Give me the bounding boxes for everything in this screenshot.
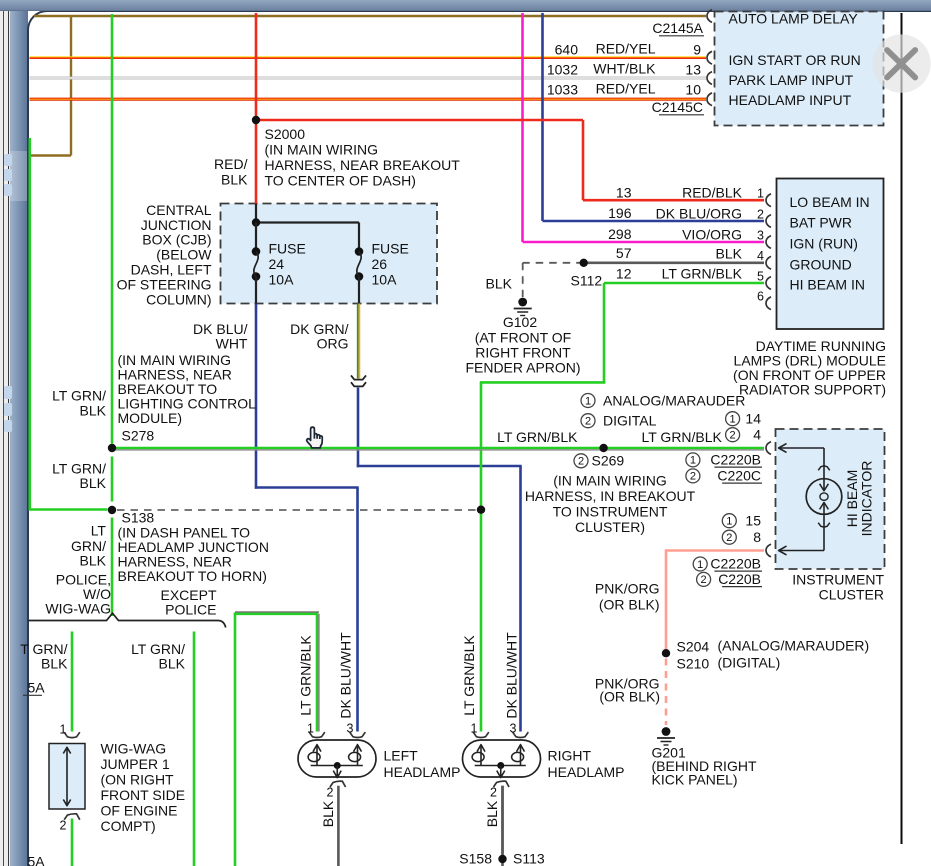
svg-text:BOX (CJB): BOX (CJB) — [142, 232, 211, 248]
svg-text:RIGHT FRONT: RIGHT FRONT — [475, 345, 571, 361]
svg-text:(BELOW: (BELOW — [156, 247, 212, 263]
svg-text:5: 5 — [757, 269, 764, 283]
svg-text:S204: S204 — [677, 639, 710, 655]
svg-text:3: 3 — [510, 722, 517, 736]
svg-text:OF STEERING: OF STEERING — [117, 277, 212, 293]
svg-text:BLK: BLK — [486, 276, 513, 292]
svg-text:CENTRAL: CENTRAL — [146, 202, 212, 218]
svg-text:2: 2 — [490, 786, 497, 800]
svg-text:IGN (RUN): IGN (RUN) — [790, 236, 858, 252]
svg-text:1: 1 — [690, 455, 696, 467]
svg-text:FUSE: FUSE — [269, 241, 306, 257]
svg-text:AUTO LAMP DELAY: AUTO LAMP DELAY — [729, 11, 859, 27]
svg-text:RED/YEL: RED/YEL — [596, 41, 656, 57]
svg-text:10A: 10A — [269, 272, 295, 288]
svg-text:HEADLAMP INPUT: HEADLAMP INPUT — [729, 92, 852, 108]
svg-text:WIG-WAG: WIG-WAG — [45, 601, 111, 617]
svg-text:S138: S138 — [122, 510, 155, 526]
svg-text:15: 15 — [745, 513, 761, 529]
svg-text:12: 12 — [616, 265, 632, 281]
svg-text:6: 6 — [757, 290, 764, 304]
svg-text:HARNESS, NEAR BREAKOUT: HARNESS, NEAR BREAKOUT — [265, 157, 461, 173]
svg-text:INSTRUMENT: INSTRUMENT — [792, 572, 884, 588]
svg-text:1: 1 — [471, 722, 478, 736]
svg-text:COLUMN): COLUMN) — [146, 292, 211, 308]
svg-text:DASH, LEFT: DASH, LEFT — [131, 262, 212, 278]
svg-text:2: 2 — [585, 416, 591, 428]
svg-text:C220B: C220B — [718, 571, 761, 587]
svg-text:BLK: BLK — [80, 553, 107, 569]
svg-text:MODULE): MODULE) — [118, 410, 183, 426]
svg-text:RADIATOR SUPPORT): RADIATOR SUPPORT) — [739, 382, 886, 398]
svg-text:298: 298 — [608, 226, 632, 242]
svg-text:POLICE: POLICE — [165, 602, 216, 618]
svg-text:LEFT: LEFT — [384, 748, 419, 764]
svg-text:LT GRN/: LT GRN/ — [52, 388, 106, 404]
svg-text:26: 26 — [372, 256, 388, 272]
svg-text:CLUSTER: CLUSTER — [819, 587, 884, 603]
svg-text:S210: S210 — [677, 656, 710, 672]
svg-text:S269: S269 — [592, 453, 625, 469]
svg-text:S278: S278 — [122, 428, 155, 444]
svg-text:3: 3 — [347, 722, 354, 736]
svg-text:57: 57 — [616, 245, 632, 261]
svg-text:4: 4 — [753, 427, 761, 443]
svg-text:HEADLAMP: HEADLAMP — [548, 764, 625, 780]
svg-text:1033: 1033 — [547, 82, 578, 98]
svg-text:1: 1 — [60, 723, 67, 737]
svg-text:2: 2 — [578, 456, 584, 468]
svg-text:C220C: C220C — [717, 468, 761, 484]
svg-text:3: 3 — [757, 228, 764, 242]
svg-text:TO INSTRUMENT: TO INSTRUMENT — [553, 504, 668, 520]
svg-text:BLK: BLK — [221, 172, 248, 188]
svg-text:2: 2 — [327, 786, 334, 800]
svg-text:(IN MAIN WIRING: (IN MAIN WIRING — [265, 142, 379, 158]
svg-text:10: 10 — [685, 82, 701, 98]
svg-text:OF ENGINE: OF ENGINE — [101, 802, 178, 818]
svg-text:1: 1 — [585, 395, 591, 407]
svg-text:LT GRN/BLK: LT GRN/BLK — [461, 635, 477, 716]
svg-text:2: 2 — [690, 471, 696, 483]
svg-text:HEADLAMP: HEADLAMP — [384, 764, 461, 780]
svg-text:S158: S158 — [459, 851, 492, 866]
svg-text:LT GRN/BLK: LT GRN/BLK — [642, 429, 723, 445]
svg-text:KICK PANEL): KICK PANEL) — [652, 772, 738, 788]
svg-text:JUMPER 1: JUMPER 1 — [101, 756, 170, 772]
svg-text:PARK LAMP INPUT: PARK LAMP INPUT — [729, 72, 854, 88]
svg-text:IGN START OR RUN: IGN START OR RUN — [729, 52, 861, 68]
svg-text:8: 8 — [753, 529, 761, 545]
svg-text:BLK: BLK — [484, 800, 500, 827]
svg-text:(OR BLK): (OR BLK) — [599, 689, 660, 705]
svg-text:S112: S112 — [571, 273, 603, 289]
svg-text:BLK: BLK — [159, 656, 186, 672]
svg-text:S2000: S2000 — [265, 126, 306, 142]
svg-text:640: 640 — [555, 42, 579, 58]
svg-text:9: 9 — [693, 42, 701, 58]
svg-text:GROUND: GROUND — [790, 256, 852, 272]
svg-text:LT GRN/BLK: LT GRN/BLK — [298, 635, 314, 716]
svg-text:2: 2 — [726, 532, 732, 544]
svg-text:LT GRN/BLK: LT GRN/BLK — [497, 429, 578, 445]
svg-text:2: 2 — [60, 819, 67, 833]
svg-text:2: 2 — [701, 574, 707, 586]
svg-text:BREAKOUT TO HORN): BREAKOUT TO HORN) — [118, 568, 267, 584]
svg-text:13: 13 — [685, 62, 701, 78]
svg-text:4: 4 — [757, 249, 764, 263]
svg-text:1: 1 — [697, 559, 703, 571]
svg-text:5A: 5A — [28, 854, 46, 866]
svg-text:VIO/ORG: VIO/ORG — [682, 226, 742, 242]
svg-text:HARNESS, IN BREAKOUT: HARNESS, IN BREAKOUT — [525, 488, 696, 504]
svg-text:196: 196 — [608, 205, 632, 221]
svg-text:FUSE: FUSE — [372, 241, 409, 257]
svg-text:LT: LT — [91, 523, 107, 539]
svg-text:1: 1 — [726, 516, 732, 528]
svg-text:2: 2 — [757, 207, 764, 221]
svg-text:BAT PWR: BAT PWR — [790, 215, 853, 231]
svg-text:C2220B: C2220B — [710, 452, 761, 468]
svg-text:WHT: WHT — [216, 336, 248, 352]
svg-text:13: 13 — [616, 184, 632, 200]
svg-text:CLUSTER): CLUSTER) — [575, 519, 645, 535]
svg-text:1032: 1032 — [547, 62, 578, 78]
svg-text:BLK: BLK — [80, 475, 107, 491]
svg-text:DK BLU/ORG: DK BLU/ORG — [656, 205, 742, 221]
svg-text:FENDER APRON): FENDER APRON) — [465, 360, 580, 376]
svg-text:24: 24 — [269, 256, 285, 272]
svg-text:1: 1 — [730, 414, 736, 426]
svg-text:COMPT): COMPT) — [101, 818, 156, 834]
svg-text:1: 1 — [757, 187, 764, 201]
svg-text:PNK/ORG: PNK/ORG — [595, 581, 660, 597]
svg-text:ORG: ORG — [317, 336, 349, 352]
svg-text:BLK: BLK — [41, 656, 68, 672]
svg-text:FRONT SIDE: FRONT SIDE — [101, 787, 186, 803]
svg-text:(AT FRONT OF: (AT FRONT OF — [475, 330, 571, 346]
svg-text:RIGHT: RIGHT — [548, 748, 592, 764]
svg-text:RED/BLK: RED/BLK — [682, 185, 743, 201]
svg-text:TO CENTER OF DASH): TO CENTER OF DASH) — [265, 173, 416, 189]
svg-text:ANALOG/MARAUDER: ANALOG/MARAUDER — [603, 393, 745, 409]
svg-text:G102: G102 — [503, 314, 537, 330]
svg-text:INDICATOR: INDICATOR — [859, 461, 875, 537]
svg-text:(DIGITAL): (DIGITAL) — [718, 655, 781, 671]
svg-text:RED/YEL: RED/YEL — [596, 81, 656, 97]
svg-text:(ON RIGHT: (ON RIGHT — [101, 771, 175, 787]
svg-text:1: 1 — [307, 722, 314, 736]
svg-text:(IN MAIN WIRING: (IN MAIN WIRING — [553, 473, 667, 489]
svg-text:BLK: BLK — [80, 403, 107, 419]
svg-text:C2145C: C2145C — [652, 99, 703, 115]
svg-text:C2220B: C2220B — [710, 556, 761, 572]
svg-text:HI BEAM IN: HI BEAM IN — [790, 277, 865, 293]
svg-text:C2145A: C2145A — [652, 20, 703, 36]
svg-text:(ANALOG/MARAUDER): (ANALOG/MARAUDER) — [718, 638, 870, 654]
svg-text:RED/: RED/ — [214, 156, 248, 172]
svg-text:DK BLU/WHT: DK BLU/WHT — [504, 632, 520, 719]
svg-text:DK BLU/WHT: DK BLU/WHT — [338, 632, 354, 719]
svg-text:2: 2 — [730, 430, 736, 442]
svg-text:(OR BLK): (OR BLK) — [599, 597, 660, 613]
svg-text:LT GRN/BLK: LT GRN/BLK — [662, 266, 743, 282]
svg-text:S113: S113 — [513, 851, 545, 866]
svg-text:DIGITAL: DIGITAL — [603, 413, 657, 429]
svg-text:WHT/BLK: WHT/BLK — [593, 61, 656, 77]
svg-text:14: 14 — [745, 411, 761, 427]
svg-text:LO BEAM IN: LO BEAM IN — [790, 194, 870, 210]
svg-text:WIG-WAG: WIG-WAG — [101, 740, 167, 756]
svg-text:JUNCTION: JUNCTION — [141, 217, 212, 233]
svg-text:BLK: BLK — [716, 245, 743, 261]
svg-text:10A: 10A — [372, 272, 398, 288]
svg-text:5A: 5A — [28, 680, 46, 696]
svg-text:BLK: BLK — [320, 800, 336, 827]
